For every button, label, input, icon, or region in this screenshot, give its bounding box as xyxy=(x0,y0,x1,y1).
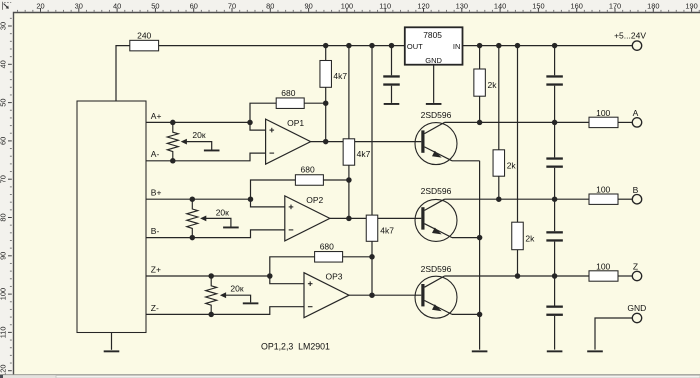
junction 2k #3 on line Z xyxy=(515,273,521,279)
rail junction at 4k7 #3 xyxy=(369,43,375,49)
transistor Q3 2SD596 (NPN) xyxy=(415,276,457,318)
svg-text:80: 80 xyxy=(266,1,274,10)
capacitor C3 (line A to line B) xyxy=(554,122,556,157)
transistor Q2 2SD596 (NPN) xyxy=(415,199,457,241)
wire A+ pin to op-amp non-inverting input xyxy=(146,122,266,130)
resistor 100 (output B) xyxy=(589,194,618,204)
svg-text:90: 90 xyxy=(304,1,312,10)
voltage regulator U1 7805 xyxy=(405,27,463,64)
ground of emitter rail xyxy=(472,350,488,352)
wire Q2 collector to output line xyxy=(445,198,589,200)
svg-text:20к: 20к xyxy=(192,130,205,140)
svg-text:7805: 7805 xyxy=(423,30,442,40)
terminal Z xyxy=(632,271,641,280)
wire 680 #2 left lead to + input node xyxy=(251,180,296,199)
svg-text:50: 50 xyxy=(151,1,159,10)
op-amp OP2 (LM2901 comparator) xyxy=(285,196,330,241)
resistor 680 #3 (hysteresis feedback OP3) xyxy=(315,252,343,262)
svg-text:20к: 20к xyxy=(230,283,243,293)
svg-text:IN: IN xyxy=(453,42,461,51)
svg-text:110: 110 xyxy=(379,1,391,10)
junction B+ feedback corner xyxy=(248,196,254,202)
wire Q1 emitter to ground rail xyxy=(452,160,480,162)
junction pot A top xyxy=(170,120,176,126)
junction Q2 emitter on ground rail xyxy=(477,235,483,241)
connector/sensor block U2 xyxy=(77,101,146,333)
ground of GND terminal xyxy=(587,350,603,352)
svg-text:40: 40 xyxy=(113,1,121,10)
rail junction at 2k #3 xyxy=(515,43,521,49)
bottom scrollbar track xyxy=(0,375,700,378)
potentiometer 20k (Z offset trim) xyxy=(206,276,217,314)
svg-text:40: 40 xyxy=(0,60,8,68)
resistor 4k7 #1 (OP1 output pull-up) xyxy=(320,61,332,88)
wire 2k #3 pull-up column xyxy=(517,46,519,223)
wire 100 to terminal A xyxy=(618,121,632,123)
svg-text:OUT: OUT xyxy=(407,42,423,51)
svg-text:140: 140 xyxy=(494,1,506,10)
svg-text:OP2: OP2 xyxy=(306,195,323,205)
svg-text:B-: B- xyxy=(151,226,160,236)
svg-text:20: 20 xyxy=(36,1,44,10)
svg-text:60: 60 xyxy=(0,137,8,145)
svg-text:Z+: Z+ xyxy=(151,264,161,274)
resistor 100 (output A) xyxy=(589,117,618,127)
capacitor C1 (7805 output filter) xyxy=(391,46,393,76)
svg-text:4k7: 4k7 xyxy=(357,149,371,159)
wire Z- pin to op-amp inverting input xyxy=(146,307,304,315)
resistor 680 #1 (hysteresis feedback OP1) xyxy=(276,98,304,109)
node OP1 output xyxy=(323,139,329,145)
op-amp OP1 (LM2901 comparator) xyxy=(266,119,311,164)
wiper arrow of 20k pot A xyxy=(181,139,187,145)
svg-text:4k7: 4k7 xyxy=(333,71,347,81)
node OP2 output xyxy=(346,216,352,222)
junction C3/C4 on line B xyxy=(552,196,558,202)
wire +5V rail right section (7805 IN to +5..24V terminal) xyxy=(463,45,633,47)
junction C4/C5 on line Z xyxy=(552,273,558,279)
svg-text:2SD596: 2SD596 xyxy=(421,110,452,120)
ground of C5 xyxy=(547,350,563,352)
potentiometer 20k (A offset trim) xyxy=(167,122,178,160)
wire 4k7 #3 pull-up column xyxy=(371,46,373,216)
potentiometer 20k (B offset trim) xyxy=(187,199,198,237)
svg-text:30: 30 xyxy=(75,1,83,10)
svg-text:2k: 2k xyxy=(488,80,498,90)
resistor 2k #3 (output Z pull-up) xyxy=(512,222,524,250)
wiper arrow of 20k pot B xyxy=(200,216,206,222)
svg-text:Z-: Z- xyxy=(151,303,159,313)
rail junction at 4k7 #2 xyxy=(346,43,352,49)
ground of C1 xyxy=(384,103,400,105)
wire +5V rail left section (240 to 7805 OUT) xyxy=(159,45,405,47)
svg-text:OP1: OP1 xyxy=(287,118,304,128)
node OP3 feedback junction xyxy=(369,254,375,260)
junction Z+ feedback corner xyxy=(267,273,273,279)
svg-text:130: 130 xyxy=(456,1,468,10)
wire 680 #2 right lead to output node xyxy=(323,179,349,181)
junction pot Z top xyxy=(208,273,214,279)
svg-text:680: 680 xyxy=(320,242,334,252)
transistor Q1 2SD596 (NPN) xyxy=(415,123,457,165)
terminal B xyxy=(632,195,641,204)
wire B+ pin to op-amp non-inverting input xyxy=(146,199,285,207)
resistor 2k #1 (output A pull-up) xyxy=(474,69,486,96)
wire Q1 collector to output line xyxy=(445,121,589,123)
rail junction at 4k7 #1 xyxy=(323,43,329,49)
svg-text:2k: 2k xyxy=(507,160,517,170)
rail junction at 2k #2 xyxy=(496,43,502,49)
svg-text:Z: Z xyxy=(633,262,638,272)
svg-text:2SD596: 2SD596 xyxy=(421,264,452,274)
junction C2/C3 on line A xyxy=(552,120,558,126)
svg-text:110: 110 xyxy=(0,327,8,339)
top ruler xyxy=(18,1,700,11)
junction A+ feedback corner xyxy=(247,120,253,126)
rail junction at C2 xyxy=(552,43,558,49)
wire Q3 collector to output line xyxy=(445,275,589,277)
bottom-left resize corner xyxy=(0,375,3,378)
wire OP2 output to transistor base xyxy=(330,217,422,219)
wiper ground of 20k pot A xyxy=(204,150,220,152)
svg-text:A-: A- xyxy=(151,149,160,159)
junction pot Z bottom xyxy=(208,312,214,318)
svg-text:4k7: 4k7 xyxy=(380,226,394,236)
svg-text:100: 100 xyxy=(341,1,353,10)
svg-text:100: 100 xyxy=(596,108,610,118)
svg-text:90: 90 xyxy=(0,252,8,260)
resistor 680 #2 (hysteresis feedback OP2) xyxy=(295,175,323,186)
junction 2k #1 on line A xyxy=(477,120,483,126)
rail junction at C1 xyxy=(389,43,395,49)
rail junction at 2k #1 xyxy=(477,43,483,49)
svg-text:50: 50 xyxy=(0,98,8,106)
junction Q3 emitter on ground rail xyxy=(477,312,483,318)
terminal GND xyxy=(632,313,641,322)
wire 240 resistor to connector top xyxy=(116,46,130,102)
svg-text:100: 100 xyxy=(596,185,610,195)
wire Q2 emitter to ground rail xyxy=(452,237,480,239)
terminal A xyxy=(632,118,641,127)
svg-text:120: 120 xyxy=(417,1,429,10)
svg-text:+5...24V: +5...24V xyxy=(614,30,646,40)
svg-text:A+: A+ xyxy=(151,111,162,121)
svg-text:150: 150 xyxy=(532,1,544,10)
wire 2k #1 pull-up column xyxy=(479,46,481,69)
svg-text:180: 180 xyxy=(647,1,659,10)
svg-text:2k: 2k xyxy=(525,233,535,243)
capacitor C5 (line Z to ground) xyxy=(554,276,556,306)
op-amp OP3 (LM2901 comparator) xyxy=(304,273,349,318)
svg-text:100: 100 xyxy=(0,288,8,300)
wire 100 to terminal Z xyxy=(618,275,632,277)
wire 680 #3 right lead to output node xyxy=(343,256,372,258)
svg-text:OP1,2,3 LM2901: OP1,2,3 LM2901 xyxy=(261,341,330,351)
junction pot A bottom xyxy=(170,158,176,164)
node OP2 feedback junction xyxy=(346,177,352,183)
capacitor C2 (rail to line A) xyxy=(554,46,556,76)
svg-text:100: 100 xyxy=(596,261,610,271)
wire Z+ pin to op-amp non-inverting input xyxy=(146,276,304,284)
svg-text:30: 30 xyxy=(0,22,8,30)
svg-text:2SD596: 2SD596 xyxy=(421,186,452,196)
wire B- pin to op-amp inverting input xyxy=(146,230,285,238)
ground of 7805 xyxy=(426,103,442,105)
svg-text:GND: GND xyxy=(425,56,442,65)
wire 680 #1 right lead to output node xyxy=(304,102,326,104)
junction 2k #2 on line B xyxy=(496,196,502,202)
left ruler xyxy=(0,18,12,377)
terminal +5...24V xyxy=(632,41,641,50)
wire A- pin to op-amp inverting input xyxy=(146,153,266,161)
wire 680 #1 left lead to + input node xyxy=(250,103,276,122)
wiper ground of 20k pot B xyxy=(223,227,239,229)
wire 4k7 #2 pull-up column xyxy=(348,46,350,139)
wire 2k #2 pull-up column xyxy=(498,46,500,150)
svg-text:170: 170 xyxy=(609,1,621,10)
resistor 100 (output Z) xyxy=(589,271,618,281)
ground lead of 7805 xyxy=(433,65,435,103)
wire OP3 output to transistor base xyxy=(349,294,421,296)
svg-text:A: A xyxy=(633,108,639,118)
wire 680 #3 left lead to + input node xyxy=(270,257,315,276)
svg-text:20к: 20к xyxy=(216,207,229,217)
wire OP1 output to transistor base xyxy=(311,141,422,143)
bottom scrollbar thumb xyxy=(56,376,700,378)
svg-text:B: B xyxy=(633,185,639,195)
svg-text:160: 160 xyxy=(571,1,583,10)
resistor 2k #2 (output B pull-up) xyxy=(493,150,505,176)
svg-text:680: 680 xyxy=(281,88,295,98)
svg-text:70: 70 xyxy=(228,1,236,10)
ruler corner icon xyxy=(3,2,12,10)
junction pot B top xyxy=(190,196,196,202)
svg-text:70: 70 xyxy=(0,175,8,183)
svg-text:190: 190 xyxy=(685,1,697,10)
svg-text:240: 240 xyxy=(137,31,151,41)
resistor 4k7 #3 (OP3 output pull-up) xyxy=(366,215,378,241)
ground of connector block xyxy=(111,333,113,350)
resistor 240 xyxy=(130,40,159,51)
resistor 4k7 #2 (OP2 output pull-up) xyxy=(343,139,355,165)
svg-text:OP3: OP3 xyxy=(325,272,342,282)
capacitor C4 (line B to line Z) xyxy=(554,199,556,231)
node OP3 output xyxy=(369,292,375,298)
svg-text:80: 80 xyxy=(0,213,8,221)
svg-text:B+: B+ xyxy=(151,188,162,198)
svg-text:60: 60 xyxy=(190,1,198,10)
wire emitter ground rail xyxy=(479,161,481,350)
wire 4k7 #1 pull-up column xyxy=(325,46,327,61)
node OP1 feedback junction xyxy=(323,100,329,106)
svg-text:680: 680 xyxy=(301,165,315,175)
wiper ground of 20k pot Z xyxy=(243,302,259,304)
wire Q3 emitter to ground rail xyxy=(452,313,480,315)
wiper arrow of 20k pot Z xyxy=(220,292,226,298)
junction pot B bottom xyxy=(190,235,196,241)
svg-text:GND: GND xyxy=(627,303,646,313)
wire 100 to terminal B xyxy=(618,198,632,200)
wire GND terminal to ground xyxy=(595,318,632,350)
